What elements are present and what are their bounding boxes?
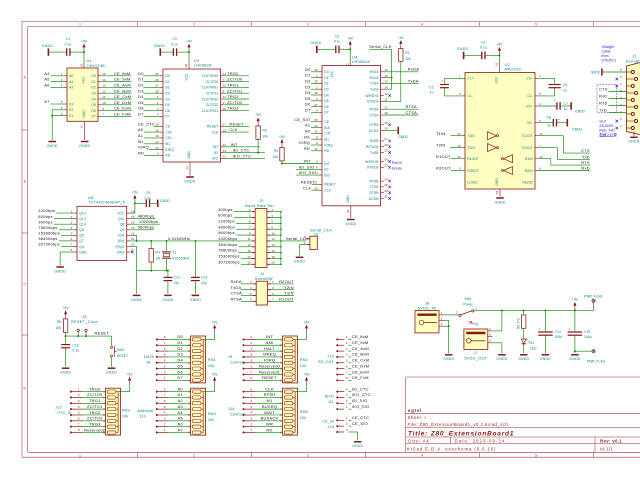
- wire J1 shell to ground: [628, 132, 639, 144]
- svg-text:+5V: +5V: [304, 373, 311, 377]
- svg-text:ZC/TO0: ZC/TO0: [227, 77, 243, 82]
- svg-text:ZC/TO0: ZC/TO0: [87, 392, 103, 397]
- svg-text:INT: INT: [304, 159, 311, 164]
- svg-text:J11: J11: [328, 400, 334, 404]
- svg-text:J9: J9: [228, 355, 232, 359]
- svg-text:J8: J8: [146, 361, 150, 365]
- svg-text:CE_CxM: CE_CxM: [114, 94, 132, 99]
- svg-text:1: 1: [250, 335, 252, 339]
- svg-text:D2: D2: [138, 83, 144, 88]
- svg-text:A0: A0: [305, 129, 311, 134]
- svg-text:+5V: +5V: [186, 39, 193, 43]
- svg-text:2: 2: [193, 453, 195, 457]
- svg-text:IEO_CTC: IEO_CTC: [233, 154, 252, 159]
- svg-text:C3: C3: [172, 37, 176, 41]
- svg-text:5: 5: [539, 92, 541, 96]
- svg-text:Straight: Straight: [602, 45, 614, 49]
- svg-text:Q9: Q9: [120, 228, 125, 232]
- svg-text:0.1u: 0.1u: [145, 197, 152, 201]
- wires J2 left baud rate nets: [218, 207, 252, 265]
- ground C16: [60, 368, 71, 374]
- svg-text:RTSA: RTSA: [406, 104, 418, 109]
- svg-text:16: 16: [79, 64, 83, 68]
- svg-text:13: 13: [223, 149, 227, 153]
- svg-text:7: 7: [78, 422, 80, 426]
- switch SW2 RESET pushbutton: [111, 346, 129, 367]
- svg-text:BUSACK: BUSACK: [261, 416, 279, 421]
- svg-text:18: 18: [384, 111, 388, 115]
- svg-text:21: 21: [223, 95, 227, 99]
- svg-text:D6: D6: [177, 369, 183, 374]
- svg-text:+: +: [554, 98, 556, 102]
- svg-text:D: D: [23, 387, 26, 391]
- svg-text:+5V: +5V: [398, 36, 405, 40]
- ground J15: [352, 442, 363, 448]
- svg-text:11: 11: [247, 237, 250, 241]
- ground oscillator rail: [131, 295, 142, 301]
- svg-text:Y1: Y1: [172, 251, 176, 255]
- svg-text:28: 28: [384, 183, 388, 187]
- svg-text:RESET: RESET: [117, 354, 128, 358]
- capacitor C8 1u VS- to ground: [538, 115, 582, 131]
- svg-text:R5: R5: [57, 320, 61, 324]
- svg-text:D0: D0: [324, 70, 328, 74]
- svg-text:9: 9: [620, 75, 622, 79]
- svg-text:RxTxCB: RxTxCB: [366, 145, 379, 149]
- svg-text:3: 3: [346, 347, 348, 351]
- wire oscillator net 4.9152MHz to J2: [130, 236, 252, 241]
- svg-text:D7: D7: [138, 112, 144, 117]
- svg-text:5: 5: [346, 359, 348, 363]
- svg-text:R4: R4: [155, 251, 159, 255]
- svg-text:23/10/09: 23/10/09: [599, 124, 613, 128]
- svg-text:8: 8: [250, 387, 252, 391]
- svg-text:4.9152MHz: 4.9152MHz: [172, 256, 190, 260]
- svg-text:9600bps: 9600bps: [138, 225, 155, 230]
- svg-text:2: 2: [539, 102, 541, 106]
- svg-text:E2: E2: [69, 108, 73, 112]
- svg-text:RN5: RN5: [300, 410, 308, 414]
- svg-text:22: 22: [223, 84, 227, 88]
- svg-text:31: 31: [384, 195, 388, 199]
- svg-text:8: 8: [80, 126, 84, 128]
- svg-text:+5V: +5V: [572, 298, 579, 302]
- svg-text:11: 11: [457, 132, 460, 136]
- svg-text:RN2: RN2: [300, 358, 308, 362]
- svg-text:O1: O1: [91, 80, 96, 84]
- wires U3 control CE_CTC A0 A1 M1 IORQ RD: [138, 121, 160, 155]
- svg-text:CE_BxM: CE_BxM: [352, 352, 369, 357]
- svg-text:1: 1: [79, 23, 81, 27]
- svg-text:+5V: +5V: [212, 320, 219, 324]
- svg-text:RxCA: RxCA: [370, 76, 380, 80]
- svg-text:GNDD: GNDD: [160, 199, 170, 203]
- svg-text:2: 2: [441, 322, 443, 326]
- svg-text:A1: A1: [69, 80, 73, 84]
- svg-text:A6: A6: [178, 421, 184, 426]
- wire U2 R1IN to RTS: [538, 159, 590, 165]
- svg-text:LOGIC: LOGIC: [467, 181, 478, 185]
- svg-text:GNDD: GNDD: [162, 298, 173, 302]
- connector J13 AddressL with resistor network RN4 10k: [137, 373, 218, 436]
- ground U5: [55, 267, 66, 273]
- svg-text:9600bps: 9600bps: [218, 230, 235, 235]
- svg-text:CE_FxM: CE_FxM: [352, 375, 369, 380]
- svg-text:2: 2: [316, 85, 318, 89]
- wire U2 R2IN to RxD: [538, 165, 590, 170]
- svg-text:Q10: Q10: [118, 217, 125, 221]
- svg-text:TxD: TxD: [582, 154, 590, 159]
- svg-text:9: 9: [102, 107, 104, 111]
- svg-text:CLK/TRG2: CLK/TRG2: [202, 97, 219, 101]
- svg-text:CE_ExM: CE_ExM: [114, 106, 131, 111]
- svg-text:ZC/TO1: ZC/TO1: [206, 92, 218, 96]
- svg-text:T1IN: T1IN: [436, 131, 446, 136]
- svg-text:D6: D6: [324, 105, 328, 109]
- svg-text:24: 24: [184, 64, 188, 68]
- svg-text:INT: INT: [231, 142, 238, 147]
- svg-text:RxD: RxD: [581, 165, 589, 170]
- svg-text:C4: C4: [481, 40, 485, 44]
- svg-text:2: 2: [61, 78, 63, 82]
- svg-text:76800bps: 76800bps: [38, 225, 57, 230]
- capacitor C7 1u VS+ to ground: [538, 98, 585, 113]
- svg-text:4: 4: [164, 358, 166, 362]
- svg-text:+5V: +5V: [279, 135, 286, 139]
- svg-text:T2IN: T2IN: [436, 143, 446, 148]
- wire +5V power rail: [474, 309, 593, 311]
- svg-text:(Ph): (Ph): [118, 239, 124, 243]
- svg-text:3: 3: [459, 92, 461, 96]
- svg-text:T2OUT: T2OUT: [521, 146, 532, 150]
- svg-text:O5: O5: [91, 103, 96, 107]
- svg-text:8: 8: [164, 335, 166, 339]
- svg-text:470: 470: [517, 318, 521, 324]
- svg-text:9: 9: [223, 101, 225, 105]
- svg-text:CTSA: CTSA: [406, 110, 418, 115]
- svg-text:3: 3: [71, 220, 73, 224]
- svg-text:40: 40: [314, 68, 318, 72]
- svg-text:CE: CE: [165, 125, 170, 129]
- svg-text:14: 14: [155, 140, 159, 144]
- svg-text:ZC/TO1: ZC/TO1: [87, 404, 103, 409]
- svg-text:CTSA: CTSA: [369, 113, 379, 117]
- svg-text:v0.2: v0.2: [599, 119, 606, 123]
- svg-text:D1: D1: [138, 77, 144, 82]
- svg-text:A0: A0: [178, 386, 184, 391]
- note Port B Unuse: [392, 161, 403, 171]
- svg-text:CE_9xM: CE_9xM: [352, 340, 369, 345]
- ground C12: [162, 295, 173, 301]
- connector J8 DATA with resistor network RN1 10k: [144, 320, 218, 383]
- svg-text:22p: 22p: [174, 281, 180, 285]
- svg-text:NMI: NMI: [266, 340, 274, 345]
- svg-text:GNDD: GNDD: [575, 110, 585, 114]
- svg-text:VCC: VCC: [82, 76, 86, 84]
- svg-text:3: 3: [441, 316, 443, 320]
- svg-text:A2: A2: [178, 398, 184, 403]
- svg-text:D7: D7: [165, 115, 169, 119]
- svg-text:A1: A1: [138, 133, 144, 138]
- svg-text:4: 4: [250, 353, 252, 357]
- svg-text:1u: 1u: [430, 91, 434, 95]
- svg-text:1200bps: 1200bps: [38, 208, 55, 213]
- svg-text:D0: D0: [165, 74, 169, 78]
- svg-text:1: 1: [489, 327, 491, 331]
- svg-text:+5V: +5V: [212, 373, 219, 377]
- svg-text:RTSB: RTSB: [370, 179, 380, 183]
- svg-text:2: 2: [193, 23, 195, 27]
- svg-text:CLK/TRG0: CLK/TRG0: [202, 74, 219, 78]
- svg-text:307200bps: 307200bps: [218, 259, 240, 264]
- svg-text:10k: 10k: [263, 134, 269, 138]
- wires U4 control CE_SIO A1 A0 M1 IORQ RD: [294, 117, 319, 151]
- svg-text:1: 1: [164, 428, 166, 432]
- svg-text:2: 2: [346, 399, 348, 403]
- svg-text:GND: GND: [79, 250, 87, 254]
- svg-text:C1-: C1-: [467, 94, 472, 98]
- svg-text:7: 7: [164, 341, 166, 345]
- connector J4 SerialSW 2x4 header: [250, 271, 274, 305]
- svg-text:27: 27: [384, 137, 388, 141]
- svg-text:D5: D5: [324, 99, 328, 103]
- svg-text:O2: O2: [91, 86, 96, 90]
- svg-text:W/RDYA: W/RDYA: [365, 94, 379, 98]
- svg-text:GND: GND: [346, 195, 350, 203]
- svg-text:11: 11: [131, 237, 134, 241]
- svg-text:C7: C7: [564, 102, 568, 106]
- capacitor C14 100u bulk: [538, 310, 562, 353]
- svg-text:DCDA: DCDA: [369, 129, 379, 133]
- svg-text:Q12: Q12: [79, 211, 86, 215]
- wires U3 data bus D0-D7: [138, 71, 160, 117]
- svg-text:J13: J13: [139, 415, 146, 419]
- svg-text:26: 26: [155, 78, 159, 82]
- svg-text:M1: M1: [138, 139, 145, 144]
- svg-text:3: 3: [307, 23, 309, 27]
- svg-text:R2OUT: R2OUT: [467, 169, 479, 173]
- svg-text:RTS: RTS: [599, 101, 608, 106]
- svg-text:8: 8: [250, 376, 252, 380]
- svg-text:A6: A6: [44, 83, 50, 88]
- svg-text:IEI: IEI: [324, 168, 328, 172]
- svg-text:3: 3: [489, 333, 491, 337]
- svg-text:CE_8xM: CE_8xM: [352, 334, 369, 339]
- svg-text:38400bps: 38400bps: [218, 242, 237, 247]
- svg-text:3: 3: [250, 417, 252, 421]
- svg-text:TxDA: TxDA: [370, 82, 379, 86]
- svg-text:CE_8xM: CE_8xM: [114, 71, 131, 76]
- svg-text:LED: LED: [530, 346, 537, 350]
- svg-text:2: 2: [250, 341, 252, 345]
- wires U3 RESET CLK INT IEI_CTC IEO_CTC: [224, 121, 265, 158]
- net labels U1 outputs CE_8xM..CE_FxM: [101, 71, 131, 117]
- svg-text:D0: D0: [138, 71, 144, 76]
- svg-text:配線入れ替: 配線入れ替: [599, 132, 617, 137]
- svg-text:1: 1: [164, 376, 166, 380]
- connector J6 5VDC_IN barrel jack: [415, 301, 444, 333]
- svg-text:A0: A0: [138, 127, 144, 132]
- svg-text:4: 4: [78, 405, 80, 409]
- wire bus J2 right common select: [270, 211, 281, 265]
- svg-text:A1: A1: [178, 392, 184, 397]
- svg-text:1: 1: [250, 428, 252, 432]
- svg-text:Date: 2023-09-24: Date: 2023-09-24: [455, 438, 506, 443]
- svg-text:Q7: Q7: [79, 239, 84, 243]
- svg-text:GND: GND: [495, 178, 499, 186]
- svg-text:0.1u: 0.1u: [72, 349, 79, 353]
- svg-text:29: 29: [384, 177, 388, 181]
- ground U1 enable: [47, 142, 58, 148]
- svg-text:1: 1: [78, 387, 80, 391]
- svg-text:RxDA: RxDA: [370, 70, 380, 74]
- svg-text:10k: 10k: [300, 364, 307, 368]
- svg-text:DCDB: DCDB: [369, 197, 379, 201]
- svg-text:Q14: Q14: [79, 223, 86, 227]
- svg-text:5: 5: [164, 353, 166, 357]
- svg-text:M1: M1: [324, 138, 329, 142]
- svg-text:Q8: Q8: [120, 223, 125, 227]
- resistor R6 470 LED series: [517, 310, 526, 338]
- connector J5 RESET_Conn: [71, 314, 98, 337]
- svg-text:4: 4: [164, 411, 166, 415]
- svg-text:VS-: VS-: [527, 121, 533, 125]
- svg-text:TRG0: TRG0: [227, 71, 239, 76]
- svg-text:D7: D7: [177, 375, 183, 380]
- svg-text:4: 4: [316, 109, 318, 113]
- svg-text:3: 3: [346, 428, 348, 432]
- connector J11 IEI/O 1x4: [325, 386, 371, 410]
- svg-text:O3: O3: [91, 92, 96, 96]
- svg-text:C14: C14: [555, 330, 561, 334]
- svg-text:SerialPort: SerialPort: [626, 58, 640, 63]
- svg-text:153600bps: 153600bps: [38, 231, 60, 236]
- svg-text:J14: J14: [228, 407, 235, 411]
- wire J6 pin1 to SW1: [444, 314, 459, 316]
- svg-text:23: 23: [384, 164, 388, 168]
- svg-text:7: 7: [250, 393, 252, 397]
- svg-text:7: 7: [346, 370, 348, 374]
- svg-text:Unuse: Unuse: [392, 167, 402, 171]
- svg-text:GNDD: GNDD: [457, 47, 468, 51]
- svg-text:C1: C1: [66, 37, 70, 41]
- note v0.2 date wiring swap: [599, 119, 617, 137]
- svg-text:300bps: 300bps: [38, 219, 52, 224]
- svg-text:GNDD: GNDD: [184, 179, 195, 183]
- svg-text:CE_DxM: CE_DxM: [114, 100, 132, 105]
- svg-text:Q13: Q13: [79, 217, 86, 221]
- svg-text:RD: RD: [266, 427, 272, 432]
- capacitor C3 0.1u with ground and +5V for U3: [154, 37, 193, 63]
- svg-text:R1OUT: R1OUT: [279, 296, 294, 301]
- wire Serial_CLK to U4 RxCA TxCA: [369, 44, 392, 89]
- svg-text:Q5: Q5: [79, 234, 84, 238]
- svg-text:A4: A4: [44, 71, 50, 76]
- svg-text:C15: C15: [584, 330, 590, 334]
- wires J4 left serial A-side nets: [231, 279, 253, 301]
- capacitor C5 1u charge pump: [429, 78, 462, 96]
- svg-text:IORQ: IORQ: [264, 358, 275, 363]
- svg-text:MAX232: MAX232: [505, 67, 522, 72]
- svg-text:Reserved1: Reserved1: [259, 369, 281, 374]
- svg-text:SerialSW: SerialSW: [255, 276, 273, 281]
- svg-text:D4: D4: [165, 97, 169, 101]
- wire oscillator rail to ground: [136, 271, 138, 294]
- svg-text:TRG2: TRG2: [227, 94, 239, 99]
- svg-text:GNDD: GNDD: [294, 260, 305, 264]
- svg-text:ZC/TO0: ZC/TO0: [206, 80, 218, 84]
- svg-text:TxDA: TxDA: [408, 78, 419, 83]
- svg-text:CS0: CS0: [165, 130, 172, 134]
- svg-text:RxDA: RxDA: [231, 279, 242, 284]
- svg-text:D1: D1: [177, 340, 183, 345]
- svg-text:BUSRQ: BUSRQ: [262, 404, 277, 409]
- power flag PWR_FLAG on +5V: [584, 294, 603, 310]
- svg-text:4800bps: 4800bps: [138, 214, 155, 219]
- svg-text:RFSH: RFSH: [264, 392, 276, 397]
- svg-text:IEO: IEO: [324, 173, 330, 177]
- svg-text:C2-: C2-: [527, 94, 532, 98]
- svg-text:E3: E3: [69, 102, 73, 106]
- svg-text:Cable: Cable: [602, 50, 611, 54]
- svg-text:6: 6: [164, 347, 166, 351]
- svg-text:0.1u: 0.1u: [480, 46, 487, 50]
- resistor R2 10k pullup IEI_CTC: [255, 113, 268, 152]
- svg-text:2: 2: [456, 311, 458, 315]
- svg-text:A5: A5: [44, 77, 50, 82]
- ground J1 pin5: [591, 68, 627, 75]
- svg-text:RD: RD: [324, 149, 329, 153]
- svg-text:RESET: RESET: [324, 183, 335, 187]
- svg-text:2: 2: [71, 215, 73, 219]
- svg-text:1u: 1u: [563, 89, 567, 93]
- svg-text:VCC: VCC: [117, 211, 125, 215]
- wire J7 pin2 to ground: [492, 343, 502, 354]
- ground J7: [496, 355, 507, 361]
- svg-text:DATA: DATA: [144, 355, 154, 359]
- svg-text:4.9152MHz: 4.9152MHz: [168, 236, 190, 241]
- svg-text:TRG2: TRG2: [89, 410, 101, 415]
- svg-text:1: 1: [316, 74, 318, 78]
- svg-text:IEI_CTC: IEI_CTC: [233, 148, 250, 153]
- svg-text:IEI/O: IEI/O: [325, 394, 334, 398]
- svg-text:RESET_Conn: RESET_Conn: [71, 319, 98, 324]
- svg-text:6: 6: [250, 364, 252, 368]
- svg-text:28: 28: [155, 89, 159, 93]
- svg-text:13: 13: [384, 74, 388, 78]
- svg-text:RTSA: RTSA: [231, 296, 243, 301]
- svg-text:CE_SIO: CE_SIO: [352, 421, 368, 426]
- svg-text:20: 20: [314, 186, 318, 190]
- svg-text:8: 8: [539, 167, 541, 171]
- svg-text:+5V: +5V: [81, 39, 88, 43]
- svg-text:5VDC_OUT: 5VDC_OUT: [464, 355, 487, 360]
- svg-text:GNDD: GNDD: [190, 298, 201, 302]
- connector J12 CTC_IO with resistor network RN3 10k: [55, 373, 133, 436]
- svg-text:D6: D6: [165, 109, 169, 113]
- svg-text:GND: GND: [82, 110, 86, 118]
- capacitor C13 22p: [191, 240, 207, 294]
- LED D1 power indicator: [521, 339, 537, 354]
- svg-text:D5: D5: [177, 363, 183, 368]
- svg-text:IORQ: IORQ: [138, 145, 149, 150]
- svg-text:18: 18: [155, 128, 159, 132]
- svg-text:Rev: v0.1: Rev: v0.1: [600, 439, 622, 444]
- svg-text:2: 2: [346, 422, 348, 426]
- svg-text:CE_AxM: CE_AxM: [114, 83, 131, 88]
- svg-text:6: 6: [346, 364, 348, 368]
- svg-text:RxDB: RxDB: [370, 139, 380, 143]
